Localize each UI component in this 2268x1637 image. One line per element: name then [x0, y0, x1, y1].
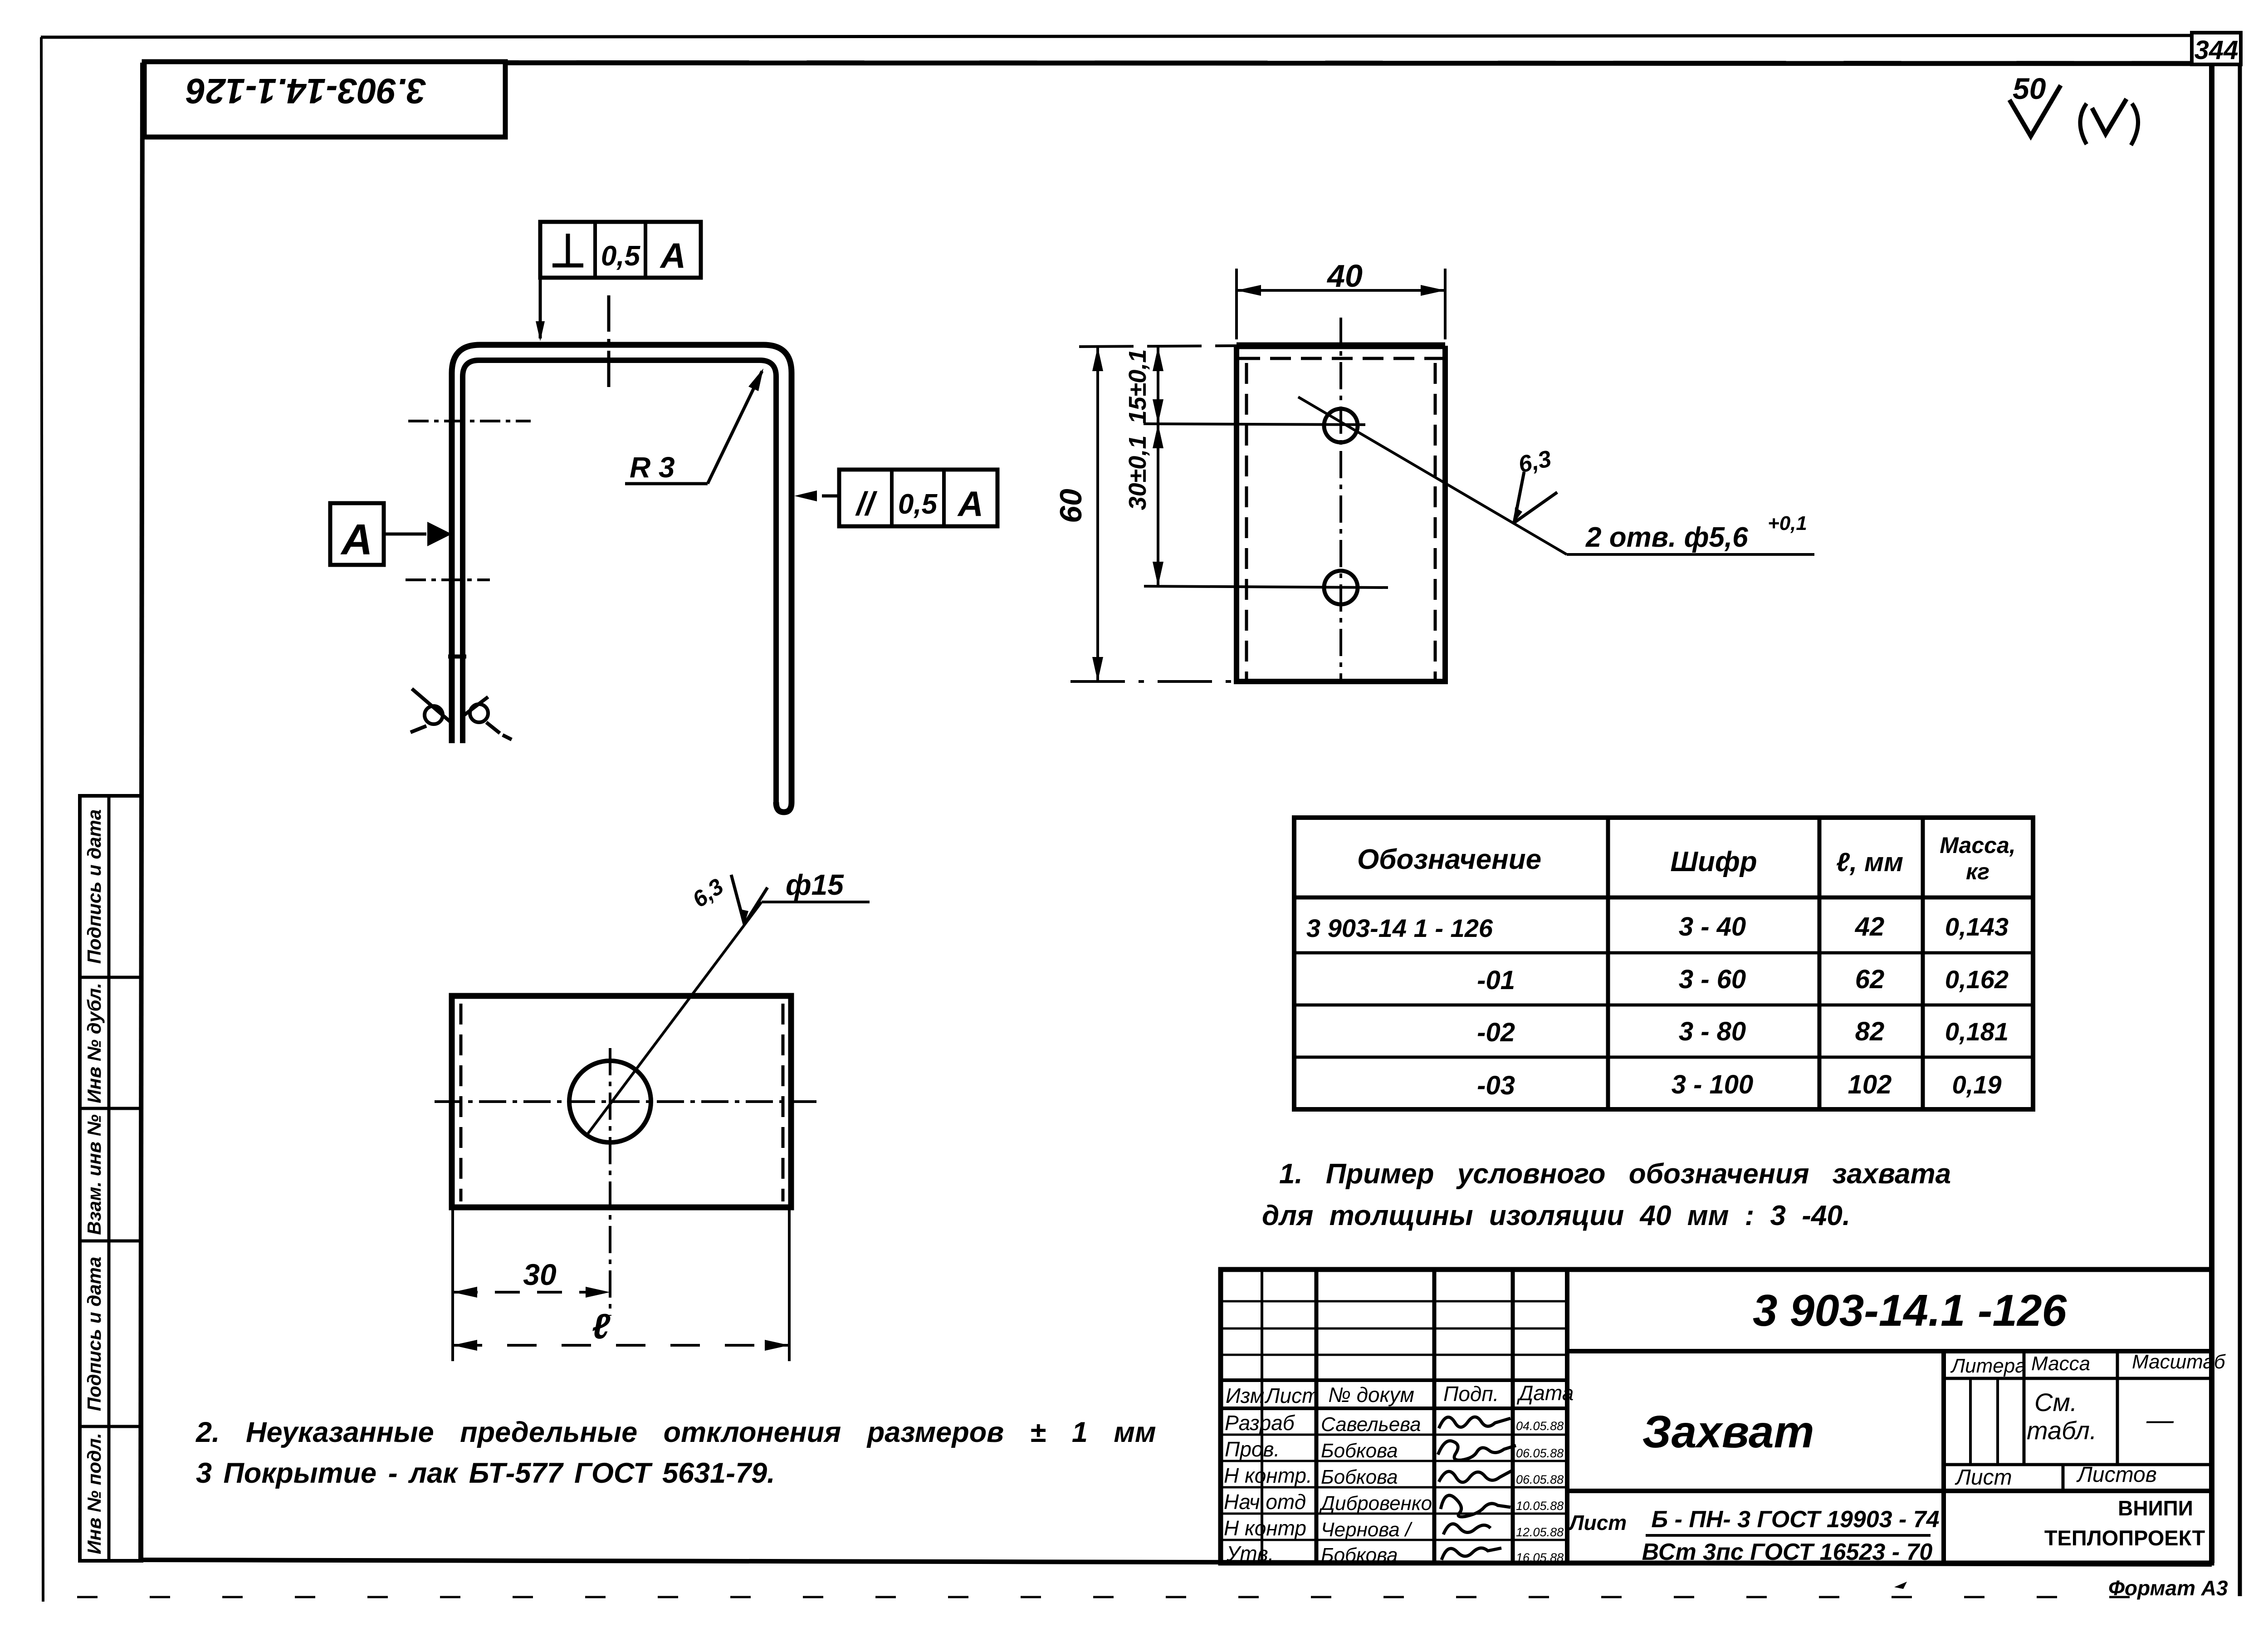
svg-text:0,5: 0,5	[898, 489, 938, 520]
title block labels and entries	[1224, 1285, 2226, 1566]
svg-text:А: А	[957, 484, 983, 524]
svg-text:-02: -02	[1477, 1018, 1515, 1047]
TABLE	[1294, 818, 2033, 1109]
perpendicularity tolerance frame	[536, 222, 701, 341]
svg-text:2 отв. ф5,6: 2 отв. ф5,6	[1585, 522, 1748, 553]
leader 2 holes	[1298, 397, 1814, 554]
hole centerline marks on left leg	[408, 420, 531, 422]
svg-text:Изм: Изм	[1226, 1384, 1264, 1407]
stray mark	[1894, 1582, 1907, 1589]
bracket inner outline	[463, 360, 776, 802]
svg-text:Н контр: Н контр	[1224, 1516, 1306, 1540]
svg-text:ℓ: ℓ	[592, 1306, 611, 1346]
BOTTOM VIEW plate	[435, 996, 816, 1316]
top-left stamp rotated doc number	[144, 62, 505, 137]
Format A3	[2108, 1576, 2228, 1600]
svg-text:ВСт 3пс ГОСТ 16523 - 70: ВСт 3пс ГОСТ 16523 - 70	[1642, 1539, 1933, 1565]
svg-text:Подп.: Подп.	[1443, 1382, 1499, 1406]
svg-text:Дата: Дата	[1516, 1381, 1574, 1405]
svg-text:Масса: Масса	[2031, 1353, 2090, 1375]
svg-text:Подпись и дата: Подпись и дата	[83, 809, 105, 964]
svg-text:3 - 80: 3 - 80	[1679, 1017, 1746, 1046]
svg-text:3 - 60: 3 - 60	[1679, 965, 1746, 994]
svg-text:Листов: Листов	[2076, 1463, 2157, 1487]
roughness 6,3 (bottom view)	[688, 873, 767, 924]
dim l bottom	[453, 1207, 789, 1361]
svg-text:№ докум: № докум	[1328, 1383, 1414, 1407]
svg-text:-01: -01	[1477, 966, 1515, 995]
dims 15 and 30 chained	[1124, 347, 1388, 588]
svg-text:Бобкова: Бобкова	[1321, 1466, 1398, 1488]
svg-text:Лист: Лист	[1568, 1511, 1627, 1534]
svg-text://: //	[855, 486, 878, 522]
svg-text:0,19: 0,19	[1952, 1070, 2002, 1099]
svg-text:10.05.88: 10.05.88	[1516, 1499, 1564, 1513]
svg-text:2. Неуказанные предельные: 2. Неуказанные предельные отклонения раз…	[196, 1416, 1156, 1448]
svg-text:3.903-14.1-126: 3.903-14.1-126	[186, 71, 426, 111]
svg-text:ф15: ф15	[786, 868, 844, 901]
svg-text:Инв № подл.: Инв № подл.	[83, 1433, 105, 1554]
svg-text:+0,1: +0,1	[1768, 512, 1807, 534]
svg-text:12.05.88: 12.05.88	[1516, 1525, 1564, 1539]
svg-text:—: —	[2146, 1405, 2174, 1435]
svg-text:82: 82	[1855, 1017, 1885, 1046]
svg-text:Обозначение: Обозначение	[1357, 844, 1541, 875]
svg-text:Захват: Захват	[1642, 1407, 1814, 1457]
svg-text:А: А	[340, 515, 372, 564]
svg-text:3 Покрытие - лак БТ-577 ГОСТ: 3 Покрытие - лак БТ-577 ГОСТ 5631-79.	[196, 1457, 775, 1489]
datum A flag	[330, 503, 452, 565]
svg-text:344: 344	[2195, 35, 2239, 65]
svg-text:табл.: табл.	[2027, 1416, 2097, 1445]
svg-text:06.05.88: 06.05.88	[1516, 1446, 1564, 1460]
svg-text:Разраб: Разраб	[1225, 1411, 1295, 1435]
svg-text:Пров.: Пров.	[1225, 1437, 1280, 1461]
svg-text:Дибровенко: Дибровенко	[1319, 1492, 1432, 1514]
clamp symbol right circle	[470, 704, 488, 722]
svg-text:ℓ, мм: ℓ, мм	[1836, 848, 1903, 877]
roughness marks top right: 50 / check, (check)	[2009, 72, 2138, 145]
svg-text:Утв.: Утв.	[1226, 1542, 1274, 1565]
svg-text:3 - 100: 3 - 100	[1672, 1070, 1754, 1099]
svg-text:0,5: 0,5	[601, 240, 641, 272]
svg-text:3 - 40: 3 - 40	[1679, 912, 1746, 941]
left margin column	[80, 796, 142, 1561]
svg-text:Лист: Лист	[1955, 1465, 2012, 1490]
svg-text:А: А	[660, 235, 686, 275]
svg-text:ВНИПИ: ВНИПИ	[2118, 1496, 2193, 1520]
notes 2 and 3	[196, 1416, 1156, 1489]
svg-text:Инв № дубл.: Инв № дубл.	[83, 983, 105, 1103]
break tick on left leg	[448, 655, 466, 659]
dim 30 bottom	[453, 1207, 610, 1361]
svg-text:Литера: Литера	[1950, 1355, 2026, 1377]
svg-text:16.05.88: 16.05.88	[1516, 1551, 1564, 1564]
svg-text:-03: -03	[1477, 1071, 1515, 1100]
svg-text:1. Пример условного обозначе: 1. Пример условного обозначения захвата	[1279, 1158, 1951, 1190]
note 1	[1262, 1158, 1951, 1231]
SIDE VIEW plate	[1237, 318, 1445, 681]
svg-text:60: 60	[1054, 489, 1088, 523]
svg-text:Масштаб: Масштаб	[2132, 1351, 2226, 1373]
dim 40	[1237, 258, 1445, 339]
svg-text:30: 30	[523, 1258, 557, 1291]
svg-text:Чернова /: Чернова /	[1321, 1519, 1413, 1541]
roughness 6,3 on leader (side plate)	[1514, 446, 1557, 523]
svg-text:3 903-14.1 -126: 3 903-14.1 -126	[1753, 1285, 2067, 1335]
svg-text:кг: кг	[1966, 859, 1989, 884]
svg-text:Савельева: Савельева	[1321, 1413, 1421, 1436]
VNIPI Teploproekt block	[2044, 1496, 2205, 1550]
svg-text:0,162: 0,162	[1945, 965, 2009, 994]
svg-text:102: 102	[1848, 1070, 1892, 1099]
svg-text:Нач.отд: Нач.отд	[1224, 1490, 1306, 1514]
clamp symbol left circle	[425, 706, 443, 724]
svg-text:Бобкова: Бобкова	[1321, 1440, 1398, 1462]
svg-text:Взам. инв №: Взам. инв №	[83, 1114, 105, 1235]
svg-text:3 903-14 1 - 126: 3 903-14 1 - 126	[1306, 914, 1493, 942]
leader f15	[587, 868, 870, 1134]
svg-text:42: 42	[1855, 912, 1885, 941]
svg-text:0,143: 0,143	[1945, 912, 2009, 941]
signature scribbles	[1438, 1417, 1516, 1560]
svg-text:Формат А3: Формат А3	[2108, 1576, 2228, 1600]
svg-text:30±0,1: 30±0,1	[1124, 436, 1151, 510]
parallelism tolerance frame	[794, 470, 997, 526]
svg-text:Б - ПН- 3 ГОСТ 19903 - 74: Б - ПН- 3 ГОСТ 19903 - 74	[1651, 1506, 1939, 1533]
svg-text:40: 40	[1326, 258, 1363, 294]
svg-text:0,181: 0,181	[1945, 1017, 2009, 1046]
page number box 344	[2192, 33, 2241, 65]
MAIN VIEW: U-bracket	[406, 295, 792, 812]
svg-text:ТЕПЛОПРОЕКТ: ТЕПЛОПРОЕКТ	[2044, 1526, 2205, 1550]
bracket outer outline	[452, 345, 792, 812]
R3 label	[625, 368, 763, 484]
svg-text:62: 62	[1855, 965, 1885, 994]
svg-text:Лист: Лист	[1264, 1384, 1319, 1407]
svg-text:Бобкова: Бобкова	[1321, 1544, 1398, 1566]
TITLE BLOCK	[1221, 1269, 2212, 1563]
svg-text:Шифр: Шифр	[1670, 846, 1757, 877]
dim 60	[1054, 346, 1237, 681]
svg-text:R 3: R 3	[630, 451, 675, 484]
svg-text:50: 50	[2013, 72, 2046, 105]
svg-text:Н контр.: Н контр.	[1224, 1464, 1312, 1487]
svg-text:06.05.88: 06.05.88	[1516, 1473, 1564, 1486]
svg-text:Подпись и дата: Подпись и дата	[83, 1257, 105, 1411]
svg-text:Масса,: Масса,	[1940, 833, 2015, 858]
svg-text:15±0,1: 15±0,1	[1124, 349, 1151, 424]
svg-text:См.: См.	[2034, 1388, 2077, 1416]
svg-text:для толщины изоляции 40 мм: для толщины изоляции 40 мм : 3 -40.	[1262, 1200, 1850, 1231]
left margin column labels	[83, 809, 105, 1554]
table texts	[1306, 833, 2016, 1100]
top bar centerline	[607, 295, 611, 394]
svg-text:04.05.88: 04.05.88	[1516, 1419, 1564, 1433]
